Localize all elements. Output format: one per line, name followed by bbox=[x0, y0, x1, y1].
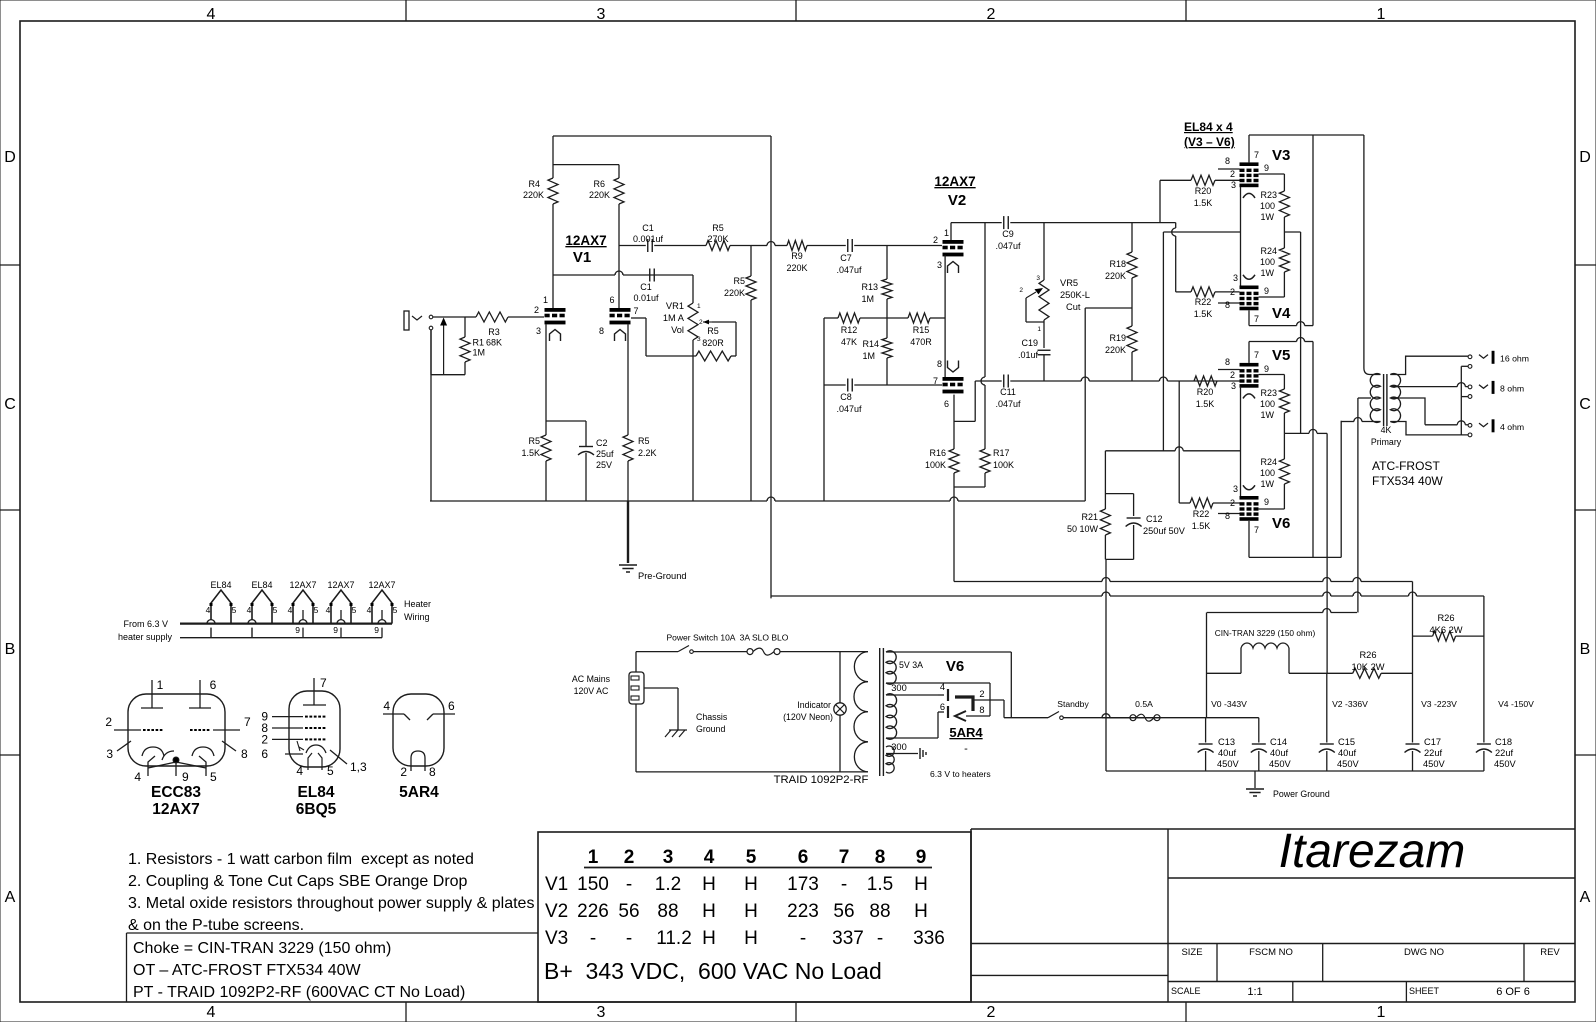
svg-text:7: 7 bbox=[839, 847, 850, 868]
svg-text:4: 4 bbox=[134, 770, 141, 784]
svg-text:8: 8 bbox=[1225, 357, 1230, 367]
svg-text:220K: 220K bbox=[523, 190, 544, 200]
svg-text:R21: R21 bbox=[1081, 512, 1098, 522]
svg-text:1: 1 bbox=[157, 678, 164, 692]
svg-text:1.5K: 1.5K bbox=[1192, 521, 1211, 531]
svg-text:4: 4 bbox=[206, 605, 211, 615]
svg-text:C9: C9 bbox=[1002, 229, 1014, 239]
svg-text:0.01uf: 0.01uf bbox=[633, 293, 659, 303]
svg-text:R15: R15 bbox=[913, 325, 930, 335]
svg-text:40uf: 40uf bbox=[1338, 748, 1357, 758]
svg-text:1.5K: 1.5K bbox=[1194, 198, 1213, 208]
svg-text:4: 4 bbox=[288, 605, 293, 615]
svg-text:.047uf: .047uf bbox=[995, 241, 1021, 251]
svg-text:V2: V2 bbox=[545, 901, 568, 922]
svg-text:3: 3 bbox=[663, 847, 674, 868]
svg-text:1: 1 bbox=[1037, 326, 1041, 333]
svg-text:C13: C13 bbox=[1218, 737, 1235, 747]
svg-text:2: 2 bbox=[534, 305, 539, 315]
svg-text:R18: R18 bbox=[1109, 259, 1126, 269]
svg-text:Power Ground: Power Ground bbox=[1273, 789, 1330, 799]
svg-text:R5: R5 bbox=[707, 326, 719, 336]
svg-text:1M: 1M bbox=[861, 294, 874, 304]
svg-text:5AR4: 5AR4 bbox=[399, 784, 439, 801]
svg-text:9: 9 bbox=[1264, 163, 1269, 173]
svg-text:337: 337 bbox=[832, 928, 864, 949]
svg-text:223: 223 bbox=[787, 901, 819, 922]
svg-text:(120V Neon): (120V Neon) bbox=[783, 712, 833, 722]
svg-text:H: H bbox=[914, 901, 928, 922]
svg-text:100: 100 bbox=[1260, 399, 1275, 409]
svg-text:R24: R24 bbox=[1260, 246, 1277, 256]
svg-text:R5: R5 bbox=[712, 223, 724, 233]
svg-text:2: 2 bbox=[699, 319, 703, 326]
svg-text:-: - bbox=[626, 928, 632, 949]
svg-text:REV: REV bbox=[1540, 947, 1560, 958]
svg-text:4: 4 bbox=[940, 682, 945, 692]
svg-text:EL84: EL84 bbox=[251, 580, 272, 590]
svg-text:4: 4 bbox=[326, 605, 331, 615]
svg-text:Itarezam: Itarezam bbox=[1279, 825, 1466, 878]
svg-text:100: 100 bbox=[1260, 201, 1275, 211]
svg-text:-: - bbox=[800, 928, 806, 949]
svg-text:-: - bbox=[877, 928, 883, 949]
svg-text:8: 8 bbox=[1225, 300, 1230, 310]
svg-text:From 6.3 V: From 6.3 V bbox=[123, 619, 168, 629]
svg-text:-: - bbox=[590, 928, 596, 949]
svg-text:R23: R23 bbox=[1260, 388, 1277, 398]
svg-text:6: 6 bbox=[798, 847, 809, 868]
svg-text:R5: R5 bbox=[638, 436, 650, 446]
svg-text:12AX7: 12AX7 bbox=[368, 580, 395, 590]
svg-text:V6: V6 bbox=[1272, 515, 1290, 532]
svg-text:3: 3 bbox=[1231, 381, 1236, 391]
svg-text:1M A: 1M A bbox=[663, 313, 685, 323]
svg-text:R6: R6 bbox=[593, 179, 605, 189]
svg-text:2: 2 bbox=[1019, 287, 1023, 294]
svg-text:Primary: Primary bbox=[1371, 437, 1402, 447]
svg-text:DWG NO: DWG NO bbox=[1404, 947, 1444, 958]
svg-text:EL84: EL84 bbox=[210, 580, 231, 590]
svg-text:1.5K: 1.5K bbox=[1194, 309, 1213, 319]
svg-text:SHEET: SHEET bbox=[1409, 986, 1440, 996]
svg-text:220K: 220K bbox=[724, 288, 745, 298]
svg-text:AC Mains: AC Mains bbox=[572, 674, 611, 684]
svg-text:ECC83: ECC83 bbox=[151, 784, 201, 801]
svg-text:C11: C11 bbox=[1000, 387, 1016, 397]
svg-text:150: 150 bbox=[577, 874, 609, 895]
svg-text:V5: V5 bbox=[1272, 347, 1290, 364]
svg-text:12AX7: 12AX7 bbox=[327, 580, 354, 590]
svg-text:Power Switch 10A: Power Switch 10A bbox=[667, 633, 736, 643]
svg-text:1W: 1W bbox=[1261, 268, 1275, 278]
svg-text:H: H bbox=[744, 901, 758, 922]
svg-text:5AR4: 5AR4 bbox=[949, 725, 983, 740]
svg-text:V2 -336V: V2 -336V bbox=[1332, 699, 1368, 709]
svg-text:9: 9 bbox=[374, 625, 379, 635]
svg-text:2. Coupling & Tone Cut Caps SB: 2. Coupling & Tone Cut Caps SBE Orange D… bbox=[128, 873, 468, 890]
svg-text:-: - bbox=[626, 874, 632, 895]
svg-text:C8: C8 bbox=[840, 392, 852, 402]
svg-text:R19: R19 bbox=[1109, 333, 1126, 343]
svg-text:V1: V1 bbox=[545, 874, 568, 895]
svg-text:4 ohm: 4 ohm bbox=[1500, 422, 1524, 432]
svg-text:-: - bbox=[964, 743, 968, 755]
svg-text:1M: 1M bbox=[862, 351, 875, 361]
svg-text:Choke = CIN-TRAN 3229 (150 ohm: Choke = CIN-TRAN 3229 (150 ohm) bbox=[133, 940, 391, 957]
svg-text:9: 9 bbox=[1264, 497, 1269, 507]
svg-text:2: 2 bbox=[624, 847, 635, 868]
svg-text:H: H bbox=[744, 874, 758, 895]
svg-text:5: 5 bbox=[327, 764, 334, 778]
svg-text:4: 4 bbox=[207, 6, 216, 23]
svg-text:C19: C19 bbox=[1021, 338, 1038, 348]
svg-text:5: 5 bbox=[232, 605, 237, 615]
svg-text:2: 2 bbox=[261, 732, 268, 746]
svg-text:C18: C18 bbox=[1495, 737, 1512, 747]
svg-text:2: 2 bbox=[987, 6, 996, 23]
svg-text:300: 300 bbox=[891, 742, 907, 752]
svg-text:4: 4 bbox=[383, 699, 390, 713]
svg-text:3: 3 bbox=[597, 1004, 606, 1021]
svg-text:300: 300 bbox=[891, 683, 907, 693]
svg-text:22uf: 22uf bbox=[1424, 748, 1443, 758]
svg-text:B: B bbox=[5, 641, 16, 658]
svg-text:1W: 1W bbox=[1261, 410, 1275, 420]
svg-text:R24: R24 bbox=[1260, 457, 1277, 467]
svg-text:H: H bbox=[914, 874, 928, 895]
svg-text:1:1: 1:1 bbox=[1247, 986, 1262, 998]
svg-text:270K: 270K bbox=[707, 234, 728, 244]
svg-text:3. Metal oxide resistors throu: 3. Metal oxide resistors throughout powe… bbox=[128, 895, 534, 912]
svg-text:R4: R4 bbox=[528, 179, 540, 189]
svg-text:12AX7: 12AX7 bbox=[934, 174, 975, 189]
svg-text:EL84 x 4: EL84 x 4 bbox=[1184, 120, 1233, 134]
svg-text:3: 3 bbox=[536, 326, 541, 336]
svg-text:5: 5 bbox=[210, 770, 217, 784]
svg-text:3: 3 bbox=[106, 747, 113, 761]
svg-text:88: 88 bbox=[869, 901, 890, 922]
svg-text:D: D bbox=[4, 149, 16, 166]
svg-text:1: 1 bbox=[1377, 1004, 1386, 1021]
svg-text:3: 3 bbox=[597, 6, 606, 23]
svg-text:C14: C14 bbox=[1270, 737, 1287, 747]
svg-text:TRAID 1092P2-RF: TRAID 1092P2-RF bbox=[774, 774, 869, 786]
svg-text:5: 5 bbox=[393, 605, 398, 615]
svg-text:120V AC: 120V AC bbox=[574, 686, 609, 696]
svg-text:V0 -343V: V0 -343V bbox=[1211, 699, 1247, 709]
svg-text:5: 5 bbox=[746, 847, 757, 868]
svg-text:2: 2 bbox=[105, 715, 112, 729]
svg-text:4K6 2W: 4K6 2W bbox=[1429, 625, 1462, 635]
svg-text:100: 100 bbox=[1260, 468, 1275, 478]
svg-text:Vol: Vol bbox=[671, 325, 684, 335]
svg-text:Ground: Ground bbox=[696, 724, 725, 734]
svg-text:450V: 450V bbox=[1494, 759, 1517, 769]
svg-text:B: B bbox=[1580, 641, 1591, 658]
svg-text:3: 3 bbox=[1233, 273, 1238, 283]
svg-text:9: 9 bbox=[295, 625, 300, 635]
svg-text:H: H bbox=[702, 901, 716, 922]
svg-text:(V3 – V6): (V3 – V6) bbox=[1184, 135, 1235, 149]
svg-text:Heater: Heater bbox=[404, 599, 431, 609]
svg-text:EL84: EL84 bbox=[297, 784, 334, 801]
svg-text:8: 8 bbox=[1225, 511, 1230, 521]
svg-text:1.5: 1.5 bbox=[867, 874, 893, 895]
svg-text:6: 6 bbox=[210, 678, 217, 692]
svg-text:1: 1 bbox=[944, 228, 949, 238]
svg-text:11.2: 11.2 bbox=[656, 928, 692, 949]
svg-text:7: 7 bbox=[633, 306, 638, 316]
svg-text:V4 -150V: V4 -150V bbox=[1498, 699, 1534, 709]
svg-text:12AX7: 12AX7 bbox=[289, 580, 316, 590]
svg-text:& on the P-tube screens.: & on the P-tube screens. bbox=[128, 917, 304, 934]
svg-text:9: 9 bbox=[333, 625, 338, 635]
svg-text:OT – ATC-FROST FTX534 40W: OT – ATC-FROST FTX534 40W bbox=[133, 962, 362, 979]
svg-text:8: 8 bbox=[429, 765, 436, 779]
svg-text:56: 56 bbox=[618, 901, 639, 922]
svg-text:R26: R26 bbox=[1359, 650, 1376, 660]
svg-text:5: 5 bbox=[273, 605, 278, 615]
svg-text:173: 173 bbox=[787, 874, 819, 895]
svg-text:16 ohm: 16 ohm bbox=[1500, 354, 1529, 364]
svg-text:V3 -223V: V3 -223V bbox=[1421, 699, 1457, 709]
svg-text:Chassis: Chassis bbox=[696, 712, 728, 722]
svg-text:3: 3 bbox=[1231, 180, 1236, 190]
svg-text:220K: 220K bbox=[1105, 271, 1126, 281]
svg-text:220K: 220K bbox=[786, 263, 807, 273]
svg-text:R9: R9 bbox=[791, 251, 803, 261]
svg-text:FSCM NO: FSCM NO bbox=[1249, 947, 1293, 958]
svg-text:25uf: 25uf bbox=[596, 449, 614, 459]
svg-text:heater supply: heater supply bbox=[118, 632, 173, 642]
svg-text:C1: C1 bbox=[642, 223, 654, 233]
svg-text:1.5K: 1.5K bbox=[1196, 399, 1215, 409]
svg-text:8: 8 bbox=[937, 359, 942, 369]
svg-text:6: 6 bbox=[448, 699, 455, 713]
svg-text:R17: R17 bbox=[993, 448, 1010, 458]
svg-text:H: H bbox=[702, 928, 716, 949]
svg-text:50 10W: 50 10W bbox=[1067, 524, 1099, 534]
svg-text:9: 9 bbox=[1264, 286, 1269, 296]
svg-text:R5: R5 bbox=[528, 436, 540, 446]
svg-text:C1: C1 bbox=[640, 282, 652, 292]
svg-text:47K: 47K bbox=[841, 337, 857, 347]
svg-text:C7: C7 bbox=[840, 253, 852, 263]
svg-text:H: H bbox=[744, 928, 758, 949]
svg-text:450V: 450V bbox=[1269, 759, 1292, 769]
svg-text:V2: V2 bbox=[948, 192, 966, 209]
svg-text:40uf: 40uf bbox=[1218, 748, 1237, 758]
svg-text:226: 226 bbox=[577, 901, 609, 922]
svg-text:8: 8 bbox=[979, 705, 984, 715]
svg-text:H: H bbox=[702, 874, 716, 895]
svg-text:R22: R22 bbox=[1195, 297, 1212, 307]
svg-text:8: 8 bbox=[599, 326, 604, 336]
svg-text:4: 4 bbox=[207, 1004, 216, 1021]
svg-text:C: C bbox=[1579, 396, 1591, 413]
svg-text:8: 8 bbox=[875, 847, 886, 868]
svg-text:4: 4 bbox=[296, 764, 303, 778]
svg-text:6: 6 bbox=[940, 702, 945, 712]
svg-text:Pre-Ground: Pre-Ground bbox=[638, 571, 687, 581]
svg-text:6.3 V to heaters: 6.3 V to heaters bbox=[930, 769, 991, 779]
svg-text:A: A bbox=[1580, 889, 1591, 906]
svg-text:V6: V6 bbox=[946, 658, 964, 675]
svg-text:450V: 450V bbox=[1423, 759, 1446, 769]
svg-text:7: 7 bbox=[1254, 350, 1259, 360]
svg-text:C17: C17 bbox=[1424, 737, 1441, 747]
svg-text:25V: 25V bbox=[596, 460, 612, 470]
svg-text:220K: 220K bbox=[1105, 345, 1126, 355]
svg-text:7: 7 bbox=[1254, 525, 1259, 535]
svg-text:9: 9 bbox=[182, 770, 189, 784]
svg-text:R26: R26 bbox=[1437, 613, 1454, 623]
svg-text:2: 2 bbox=[979, 689, 984, 699]
svg-text:100K: 100K bbox=[925, 460, 946, 470]
svg-text:R23: R23 bbox=[1260, 190, 1277, 200]
svg-text:1.5K: 1.5K bbox=[521, 448, 540, 458]
svg-text:56: 56 bbox=[833, 901, 854, 922]
svg-text:6: 6 bbox=[944, 399, 949, 409]
svg-text:R13: R13 bbox=[861, 282, 878, 292]
svg-text:2: 2 bbox=[1230, 498, 1235, 508]
svg-text:0.5A: 0.5A bbox=[1135, 699, 1153, 709]
svg-text:4: 4 bbox=[704, 847, 715, 868]
svg-text:1.2: 1.2 bbox=[655, 874, 681, 895]
svg-text:9: 9 bbox=[1264, 364, 1269, 374]
svg-text:R20: R20 bbox=[1197, 387, 1214, 397]
svg-text:7: 7 bbox=[1254, 150, 1259, 160]
svg-text:.047uf: .047uf bbox=[836, 265, 862, 275]
svg-text:C15: C15 bbox=[1338, 737, 1355, 747]
svg-text:9: 9 bbox=[916, 847, 927, 868]
svg-text:450V: 450V bbox=[1217, 759, 1240, 769]
svg-text:R1: R1 bbox=[473, 338, 485, 348]
svg-text:Wiring: Wiring bbox=[404, 612, 430, 622]
svg-text:336: 336 bbox=[913, 928, 945, 949]
svg-text:V3: V3 bbox=[545, 928, 568, 949]
svg-text:C12: C12 bbox=[1146, 514, 1163, 524]
svg-text:2: 2 bbox=[1230, 370, 1235, 380]
svg-text:22uf: 22uf bbox=[1495, 748, 1514, 758]
svg-text:.047uf: .047uf bbox=[995, 399, 1021, 409]
svg-text:1. Resistors - 1 watt carbon f: 1. Resistors - 1 watt carbon film except… bbox=[128, 851, 474, 868]
svg-text:Cut: Cut bbox=[1066, 302, 1081, 312]
svg-text:V1: V1 bbox=[573, 249, 591, 266]
svg-text:8 ohm: 8 ohm bbox=[1500, 384, 1524, 394]
svg-text:.01uf: .01uf bbox=[1018, 350, 1039, 360]
svg-text:V4: V4 bbox=[1272, 305, 1291, 322]
svg-text:R16: R16 bbox=[929, 448, 946, 458]
svg-text:820R: 820R bbox=[702, 338, 724, 348]
svg-text:0.001uf: 0.001uf bbox=[633, 234, 664, 244]
svg-text:V3: V3 bbox=[1272, 147, 1290, 164]
svg-text:1M: 1M bbox=[473, 348, 486, 358]
svg-text:8: 8 bbox=[241, 747, 248, 761]
svg-text:1,3: 1,3 bbox=[350, 760, 367, 774]
svg-text:3: 3 bbox=[1036, 275, 1040, 282]
svg-text:R3: R3 bbox=[488, 327, 500, 337]
svg-text:-: - bbox=[841, 874, 847, 895]
svg-text:6BQ5: 6BQ5 bbox=[296, 801, 337, 818]
svg-text:VR5: VR5 bbox=[1060, 278, 1078, 288]
svg-text:6 OF 6: 6 OF 6 bbox=[1496, 986, 1530, 998]
svg-text:Indicator: Indicator bbox=[797, 700, 831, 710]
svg-text:1: 1 bbox=[588, 847, 599, 868]
svg-text:7: 7 bbox=[1254, 314, 1259, 324]
svg-text:100K: 100K bbox=[993, 460, 1014, 470]
svg-text:FTX534 40W: FTX534 40W bbox=[1372, 474, 1443, 488]
svg-text:C2: C2 bbox=[596, 438, 608, 448]
svg-text:3A SLO BLO: 3A SLO BLO bbox=[740, 633, 789, 643]
svg-text:2: 2 bbox=[1230, 169, 1235, 179]
svg-text:1: 1 bbox=[543, 295, 548, 305]
svg-text:.047uf: .047uf bbox=[836, 404, 862, 414]
svg-text:1W: 1W bbox=[1261, 479, 1275, 489]
svg-text:R5: R5 bbox=[733, 276, 745, 286]
svg-text:R12: R12 bbox=[841, 325, 858, 335]
svg-text:250K-L: 250K-L bbox=[1060, 290, 1090, 300]
svg-text:1: 1 bbox=[1377, 6, 1386, 23]
svg-text:2: 2 bbox=[987, 1004, 996, 1021]
svg-text:1: 1 bbox=[697, 303, 701, 310]
svg-text:6: 6 bbox=[609, 295, 614, 305]
svg-text:ATC-FROST: ATC-FROST bbox=[1372, 459, 1440, 473]
svg-text:5V 3A: 5V 3A bbox=[899, 660, 923, 670]
svg-text:100: 100 bbox=[1260, 257, 1275, 267]
svg-text:CIN-TRAN 3229 (150 ohm): CIN-TRAN 3229 (150 ohm) bbox=[1215, 628, 1316, 638]
svg-text:A: A bbox=[5, 889, 16, 906]
svg-text:5: 5 bbox=[352, 605, 357, 615]
svg-text:4K: 4K bbox=[1381, 425, 1392, 435]
svg-text:10K 2W: 10K 2W bbox=[1351, 662, 1384, 672]
svg-text:3: 3 bbox=[1233, 484, 1238, 494]
svg-text:4: 4 bbox=[367, 605, 372, 615]
svg-text:C: C bbox=[4, 396, 16, 413]
svg-text:PT - TRAID 1092P2-RF (600VAC C: PT - TRAID 1092P2-RF (600VAC CT No Load) bbox=[133, 984, 465, 1001]
svg-text:450V: 450V bbox=[1337, 759, 1360, 769]
svg-text:2: 2 bbox=[400, 765, 407, 779]
svg-text:40uf: 40uf bbox=[1270, 748, 1289, 758]
svg-text:68K: 68K bbox=[486, 338, 502, 348]
svg-text:R22: R22 bbox=[1193, 509, 1210, 519]
svg-text:8: 8 bbox=[1225, 156, 1230, 166]
svg-text:B+ 343 VDC, 600 VAC No Load: B+ 343 VDC, 600 VAC No Load bbox=[544, 958, 882, 984]
svg-text:7: 7 bbox=[320, 676, 327, 690]
svg-text:SCALE: SCALE bbox=[1171, 986, 1201, 996]
svg-text:470R: 470R bbox=[910, 337, 932, 347]
svg-text:VR1: VR1 bbox=[666, 301, 684, 311]
svg-text:3: 3 bbox=[937, 260, 942, 270]
svg-text:12AX7: 12AX7 bbox=[565, 233, 606, 248]
svg-text:D: D bbox=[1579, 149, 1591, 166]
svg-text:7: 7 bbox=[244, 715, 251, 729]
svg-text:R20: R20 bbox=[1195, 186, 1212, 196]
svg-text:4: 4 bbox=[247, 605, 252, 615]
svg-text:250uf 50V: 250uf 50V bbox=[1143, 526, 1186, 536]
svg-text:5: 5 bbox=[314, 605, 319, 615]
svg-text:2: 2 bbox=[933, 235, 938, 245]
svg-text:R14: R14 bbox=[862, 339, 879, 349]
svg-text:2: 2 bbox=[1230, 287, 1235, 297]
svg-text:3: 3 bbox=[697, 336, 701, 343]
svg-text:88: 88 bbox=[657, 901, 678, 922]
svg-text:12AX7: 12AX7 bbox=[152, 801, 199, 818]
svg-text:SIZE: SIZE bbox=[1181, 947, 1202, 958]
svg-text:220K: 220K bbox=[589, 190, 610, 200]
svg-text:Standby: Standby bbox=[1057, 699, 1089, 709]
